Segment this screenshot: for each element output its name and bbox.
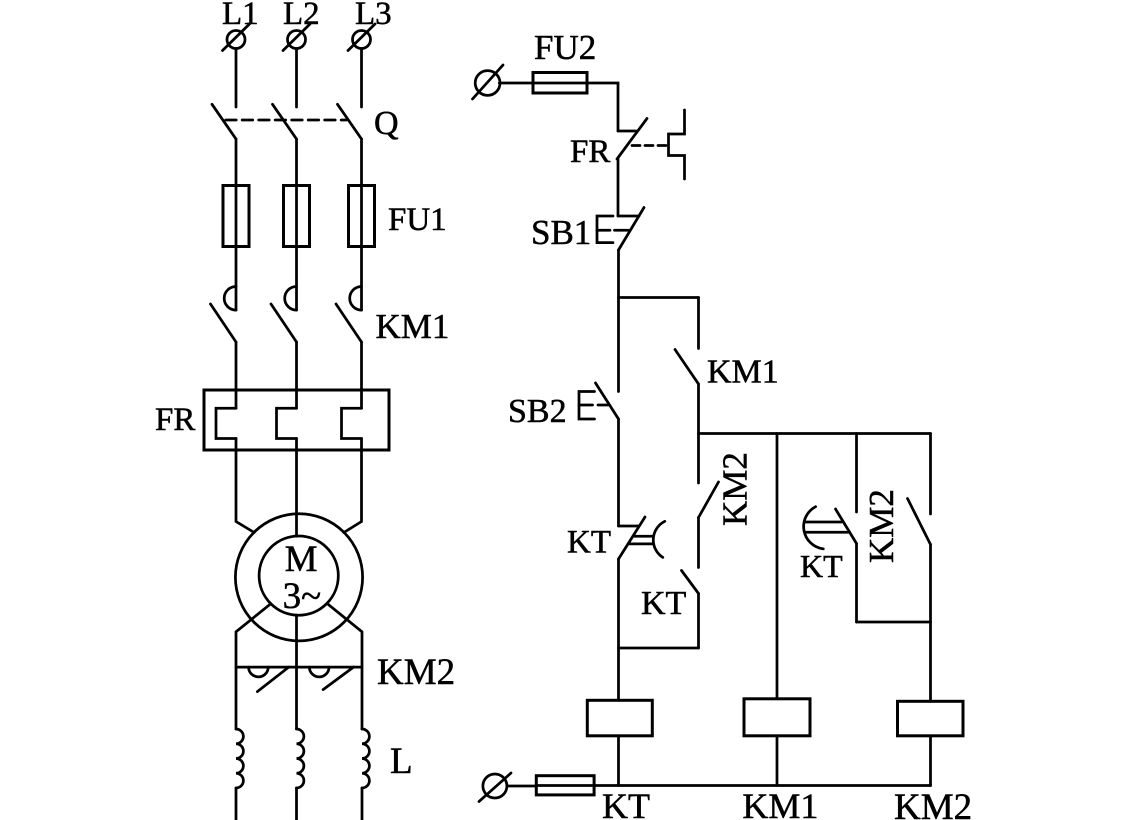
wire KM2 coil to rail: [929, 736, 932, 786]
switch Q pole 2: [273, 104, 297, 139]
wire KM1 coil to rail: [776, 736, 779, 786]
wire L3 to Q: [360, 49, 363, 108]
wire motor to rotor pole 3: [328, 604, 363, 729]
pushbutton SB2 (NO start): [579, 383, 619, 419]
wire FR to SB1: [617, 159, 620, 216]
svg-text:L: L: [390, 741, 413, 782]
contactor KM2 NO contact (branch 2): [908, 434, 931, 623]
wire inductor to edge pole 1: [235, 788, 238, 820]
svg-text:SB1: SB1: [531, 213, 591, 252]
wire inductor to edge pole 3: [361, 788, 364, 820]
time relay KT NC delayed contact: [619, 517, 665, 559]
wire KM1 to FR pole 3: [360, 342, 363, 408]
contactor KM2 contact B (middle-right): [297, 667, 362, 690]
contactor KM1 main contact pole 3: [336, 287, 362, 343]
svg-text:FU1: FU1: [388, 202, 447, 238]
wire rail right: [699, 432, 931, 435]
wire SB1 to junction: [617, 250, 620, 298]
wire KT to KT coil: [617, 559, 620, 700]
svg-text:KT: KT: [567, 525, 611, 561]
contactor KM1 aux NO contact: [675, 298, 699, 434]
FR heater element pole 1: [216, 408, 236, 438]
contactor KM2 NO contact (branch 1): [699, 434, 719, 568]
wire FR to motor pole 1: [236, 439, 254, 533]
svg-text:FR: FR: [155, 402, 195, 438]
svg-text:KM2: KM2: [716, 452, 755, 526]
svg-text:KM1: KM1: [707, 354, 779, 391]
wire motor to rotor pole 2: [295, 615, 298, 729]
svg-text:KT: KT: [641, 585, 687, 622]
svg-text:KM2: KM2: [862, 489, 901, 563]
wire KT coil to rail: [617, 736, 620, 786]
wire terminal to bottom fuse: [507, 785, 536, 788]
svg-text:KM1: KM1: [742, 786, 818, 820]
control terminal top: [473, 65, 504, 99]
svg-text:FR: FR: [570, 134, 610, 170]
coil KT: [587, 700, 652, 736]
wire FU2 to FR contact: [533, 83, 618, 131]
contactor KM2 contact A (left-middle): [236, 667, 297, 692]
fuse bottom: [536, 776, 594, 795]
FR trip bracket: [669, 110, 685, 179]
terminal L1: [223, 24, 250, 51]
fuse FU2: [533, 73, 587, 94]
switch Q linkage dashed: [226, 119, 347, 122]
wire junction to SB2: [617, 298, 620, 392]
wire L2 to Q: [295, 49, 298, 108]
terminal L2: [283, 24, 310, 51]
coil KM2: [898, 701, 964, 736]
wire KM1 to FR pole 1: [235, 342, 238, 408]
wire KM1 to FR pole 2: [295, 342, 298, 408]
wire terminal to FU2: [499, 82, 533, 85]
time relay KT NO delayed contact (branch): [804, 434, 857, 623]
svg-text:KT: KT: [800, 548, 843, 584]
svg-text:L1: L1: [222, 0, 259, 32]
switch Q pole 1: [212, 104, 236, 139]
wire Q to KM1 pole 2 (through fuse): [295, 139, 298, 310]
svg-text:L2: L2: [283, 0, 320, 32]
wire bottom rail: [536, 784, 930, 787]
svg-text:3~: 3~: [283, 576, 322, 617]
pushbutton SB1 (NC stop): [597, 208, 644, 251]
wire FR to motor pole 3: [344, 439, 362, 533]
wire Q to KM1 pole 1 (through fuse): [235, 139, 238, 310]
fuse FU1 pole 2: [284, 186, 310, 247]
svg-text:FU2: FU2: [534, 28, 596, 67]
wire inductor to edge pole 2: [295, 788, 298, 820]
wire motor to rotor pole 1: [236, 604, 271, 729]
motor M outer circle: [235, 514, 362, 641]
inductor L pole 1: [236, 729, 243, 788]
svg-text:KM2: KM2: [377, 652, 455, 693]
wire KM1 coil branch: [776, 434, 779, 699]
coil KM1: [744, 699, 810, 736]
terminal L3: [348, 24, 375, 51]
wire link delayed branch to KM2 branch: [857, 621, 931, 624]
FR trip linkage dashed: [632, 144, 667, 147]
wire Q to KM1 pole 3 (through fuse): [360, 139, 363, 310]
wire junction to KM1 branch: [619, 296, 699, 299]
wire KM2 branch to coil: [929, 622, 932, 701]
wire FR to motor pole 2: [295, 439, 298, 537]
svg-text:Q: Q: [374, 105, 399, 142]
FR heater element pole 2: [277, 408, 297, 438]
svg-text:KM1: KM1: [376, 307, 450, 346]
switch Q pole 3: [338, 104, 362, 139]
svg-text:M: M: [285, 539, 318, 580]
motor M inner circle: [259, 536, 338, 615]
contactor KM1 main contact pole 2: [271, 287, 297, 343]
FR heater element pole 3: [342, 408, 362, 438]
wire SB2 to KT: [617, 419, 620, 526]
time relay KT NO contact: [682, 571, 699, 649]
fuse FU1 pole 3: [349, 186, 375, 247]
inductor L pole 2: [297, 729, 304, 788]
inductor L pole 3: [362, 729, 369, 788]
thermal relay FR box: [204, 390, 389, 450]
fuse FU1 pole 1: [223, 186, 249, 247]
contactor KM1 main contact pole 1: [211, 287, 237, 343]
svg-text:KM2: KM2: [894, 787, 972, 820]
svg-text:SB2: SB2: [508, 393, 567, 430]
thermal relay FR NC contact: [617, 119, 647, 160]
wire link KT-NO branch bottom: [619, 647, 699, 650]
control terminal bottom: [479, 773, 511, 802]
svg-text:KT: KT: [602, 786, 650, 820]
wire L1 to Q: [235, 49, 238, 108]
